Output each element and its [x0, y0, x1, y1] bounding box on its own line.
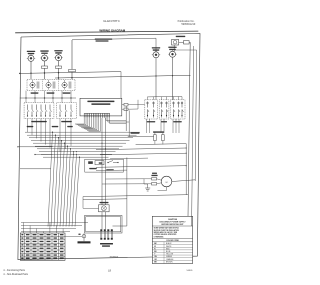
svg-text:M: M: [166, 182, 168, 184]
svg-text:L8: L8: [108, 269, 111, 273]
svg-text:OTHERWISE.: OTHERWISE.: [154, 236, 165, 238]
svg-text:BROWN: BROWN: [166, 261, 173, 263]
svg-text:56F05: 56F05: [187, 270, 194, 272]
svg-text:SOME WIRES MAY HAVE EXTRA: SOME WIRES MAY HAVE EXTRA: [154, 227, 180, 230]
svg-text:318262: 318262: [109, 255, 118, 259]
svg-text:BEFORE SERVICING UNIT: BEFORE SERVICING UNIT: [162, 224, 185, 226]
svg-text:BR: BR: [154, 261, 157, 263]
svg-text:✶ - Functioning Parts: ✶ - Functioning Parts: [3, 269, 26, 272]
svg-text:COPPER UNLESS SPECIFIED: COPPER UNLESS SPECIFIED: [154, 234, 178, 236]
svg-text:✶ - Non-Illustrated Parts: ✶ - Non-Illustrated Parts: [3, 273, 29, 276]
svg-text:5995391219: 5995391219: [181, 23, 196, 26]
svg-text:COLOR CODE: COLOR CODE: [166, 240, 179, 242]
svg-text:GLEF378TC: GLEF378TC: [103, 19, 121, 23]
svg-text:CAUTION: CAUTION: [168, 218, 178, 221]
